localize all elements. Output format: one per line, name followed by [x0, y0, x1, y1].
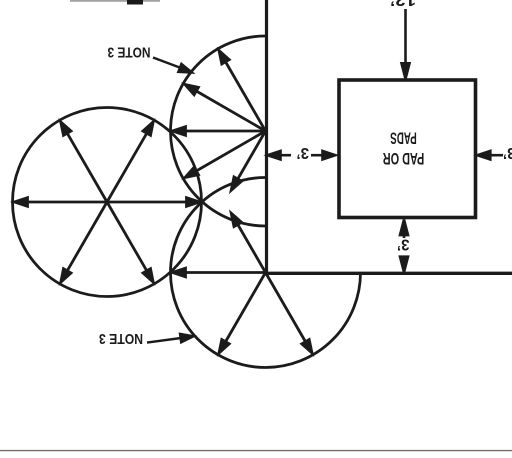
top circle short spoke into gap — [231, 131, 265, 190]
top circle spoke left — [173, 127, 266, 136]
wire: board edge vertical line — [265, 0, 268, 273]
bottom circle short spoke into gap — [231, 213, 265, 272]
left circle spoke up-left — [61, 122, 107, 202]
rule line at page bottom — [0, 450, 512, 452]
svg-text:3’: 3’ — [297, 144, 310, 161]
clearance circle top (half) — [171, 36, 266, 226]
left circle spoke up-right — [107, 122, 153, 202]
svg-text:NOTE 3: NOTE 3 — [99, 330, 143, 347]
svg-text:12’: 12’ — [390, 0, 416, 8]
leader arrow NOTE 3 top — [153, 58, 192, 73]
left circle spoke right — [107, 198, 200, 207]
left circle spoke down-right — [107, 202, 153, 282]
bottom circle spoke down-left — [219, 273, 266, 354]
clearance circle bottom (three-quarter) — [171, 178, 361, 368]
dimension arrow 12' into pad top — [402, 9, 410, 79]
dimension arrow 3' between edge and pad (left) — [268, 151, 336, 160]
svg-text:NOTE 3: NOTE 3 — [108, 44, 151, 61]
leader arrow NOTE 3 bottom — [147, 334, 194, 343]
dimension arrow 3' between pad bottom and board edge — [400, 220, 408, 273]
left circle spoke left — [15, 198, 108, 207]
svg-text:3’: 3’ — [503, 144, 512, 161]
cut-off mark at top edge — [70, 0, 160, 5]
left circle spoke down-left — [61, 202, 107, 282]
top circle spoke up-left — [185, 85, 266, 132]
svg-text:3’: 3’ — [397, 236, 410, 253]
wire: board edge horizontal line — [265, 272, 512, 275]
bottom circle spoke left — [173, 268, 266, 277]
top circle spoke up-left steep — [219, 51, 266, 132]
dimension arrow 3' into pad right side — [477, 151, 503, 160]
clearance circle left — [13, 108, 202, 297]
bottom circle spoke down-right — [266, 273, 313, 354]
pad box — [339, 80, 476, 218]
top circle spoke down-left — [185, 131, 266, 178]
